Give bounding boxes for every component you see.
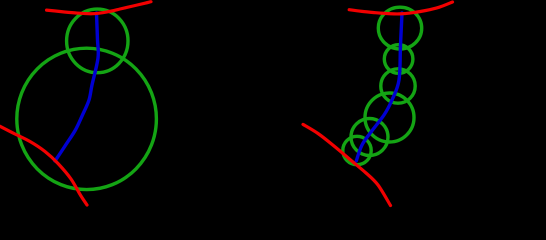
curve segment outside balls (right figure, top red arc) (349, 2, 452, 14)
curve segment outside balls (left figure, top red arc) (47, 2, 151, 14)
ball B1 (left figure, large green circle) (17, 48, 157, 189)
ball C5 (right figure, fifth green circle) (351, 119, 388, 156)
ball C1 (right figure, top green circle) (378, 7, 421, 49)
curve segment inside balls (right figure, blue) (356, 13, 402, 161)
curve segment inside balls (left figure, blue) (55, 13, 98, 161)
ball C2 (right figure, second green circle) (384, 45, 413, 74)
ball B2 (left figure, small green circle) (67, 9, 128, 73)
curve segment outside balls (right figure, bottom red arc) (303, 124, 391, 205)
ball C6 (right figure, bottom small green circle) (343, 136, 371, 164)
ball C3 (right figure, third green circle) (381, 69, 415, 103)
curve segment outside balls (left figure, bottom red arc) (0, 126, 87, 205)
ball C4 (right figure, large green circle) (365, 93, 414, 142)
